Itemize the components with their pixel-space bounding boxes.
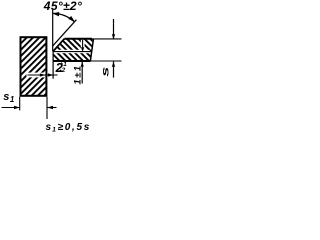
svg-text:s: s [100,67,111,77]
svg-text:45°±2°: 45°±2° [43,0,82,13]
svg-text:-2: -2 [60,67,66,74]
svg-text:1±1: 1±1 [72,65,83,85]
svg-text:s1≥0,5s: s1≥0,5s [46,122,92,134]
